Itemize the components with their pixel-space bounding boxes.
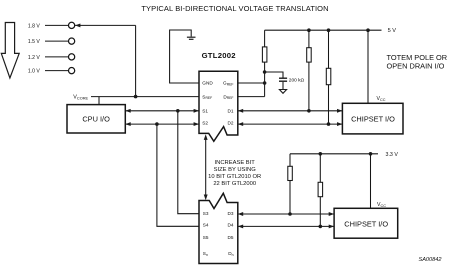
svg-text:GTL2002: GTL2002	[202, 51, 236, 60]
svg-text:S2: S2	[202, 121, 208, 126]
svg-text:10 BIT GTL2010 OR: 10 BIT GTL2010 OR	[208, 174, 261, 180]
svg-text:D2: D2	[228, 121, 234, 126]
svg-text:VCC: VCC	[377, 96, 386, 102]
svg-text:Dn: Dn	[228, 251, 233, 257]
svg-text:CPU I/O: CPU I/O	[82, 114, 110, 123]
svg-text:200 kΩ: 200 kΩ	[289, 78, 305, 84]
svg-text:5 V: 5 V	[388, 28, 397, 34]
svg-text:1.8 V: 1.8 V	[28, 23, 40, 29]
svg-text:SREF: SREF	[202, 94, 212, 100]
svg-text:22 BIT GTL2000: 22 BIT GTL2000	[213, 181, 256, 187]
svg-text:Sn: Sn	[203, 251, 208, 257]
svg-text:INCREASE BIT: INCREASE BIT	[215, 160, 256, 166]
svg-text:CHIPSET I/O: CHIPSET I/O	[344, 219, 388, 228]
svg-text:D5: D5	[228, 235, 234, 240]
svg-text:DREF: DREF	[223, 94, 233, 100]
svg-text:SIZE BY USING: SIZE BY USING	[214, 167, 257, 173]
svg-text:SA00842: SA00842	[418, 257, 442, 263]
svg-text:1.5 V: 1.5 V	[28, 39, 40, 45]
svg-text:VCORE: VCORE	[73, 94, 88, 100]
svg-text:GND: GND	[202, 81, 213, 86]
svg-text:GREF: GREF	[223, 81, 233, 87]
svg-text:1.0 V: 1.0 V	[28, 69, 40, 75]
svg-text:D4: D4	[228, 223, 234, 228]
svg-text:OPEN DRAIN I/O: OPEN DRAIN I/O	[387, 61, 445, 70]
svg-text:3.3 V: 3.3 V	[386, 152, 399, 158]
svg-text:TYPICAL BI-DIRECTIONAL VOLTAGE: TYPICAL BI-DIRECTIONAL VOLTAGE TRANSLATI…	[141, 4, 328, 13]
svg-text:CHIPSET I/O: CHIPSET I/O	[351, 115, 395, 124]
svg-text:S5: S5	[203, 235, 209, 240]
svg-text:S3: S3	[203, 211, 209, 216]
svg-text:D3: D3	[228, 211, 234, 216]
svg-text:VCC: VCC	[377, 202, 386, 208]
svg-text:S4: S4	[203, 223, 209, 228]
svg-text:S1: S1	[202, 109, 208, 114]
svg-text:D1: D1	[228, 109, 234, 114]
svg-text:1.2 V: 1.2 V	[28, 55, 40, 61]
